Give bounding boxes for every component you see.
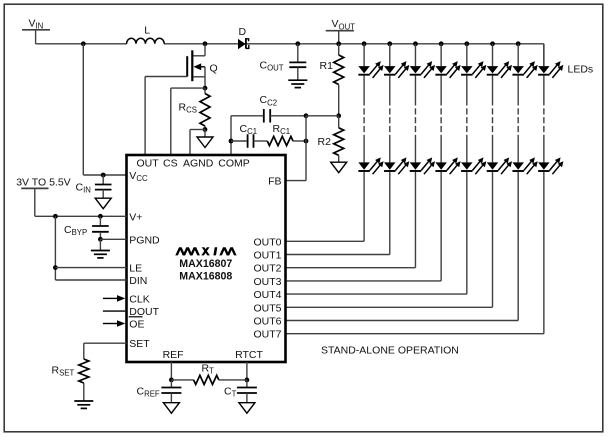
wire REF pin riser: [170, 362, 172, 380]
pin label OUT4: [253, 289, 281, 301]
node LED string 3 bus junction: [439, 41, 444, 46]
node LED string 4 bus junction: [464, 41, 469, 46]
transistor Q (n-channel MOSFET): [187, 44, 217, 88]
pin label OUT2: [253, 263, 281, 275]
svg-text:OUT3: OUT3: [253, 276, 281, 288]
LED string 7 (top LED, dashed continuation, bottom LED): [512, 44, 537, 321]
node RTCT junction: [245, 378, 250, 383]
node source/CS junction: [203, 86, 208, 91]
node COMP lower junction: [229, 139, 234, 144]
wire OUT6 to LED string 7: [286, 320, 519, 322]
resistor RSET: [52, 359, 89, 401]
svg-text:DIN: DIN: [129, 275, 147, 287]
LED string 3 (top LED, dashed continuation, bottom LED): [410, 44, 435, 268]
wire DOUT: [103, 310, 125, 312]
wire OE input arrow: [103, 320, 125, 327]
LED string 6 (top LED, dashed continuation, bottom LED): [487, 44, 512, 308]
wire OUT3 to LED string 4: [286, 280, 442, 282]
node CC1/RC1 junction: [304, 139, 309, 144]
ground PGND (earth): [91, 239, 110, 258]
pin label CLK: [129, 293, 149, 305]
resistor R1: [320, 44, 344, 116]
pin label VCC: [129, 170, 148, 183]
svg-text:STAND-ALONE OPERATION: STAND-ALONE OPERATION: [321, 345, 459, 357]
svg-text:R1: R1: [320, 60, 334, 72]
node COUT junction: [295, 41, 300, 46]
wire OUT1 to LED string 2: [286, 254, 390, 256]
svg-text:OUT1: OUT1: [253, 250, 281, 262]
ground RSET (earth): [74, 401, 93, 408]
pin label AGND: [183, 158, 214, 170]
wire compensation to FB divider: [306, 115, 339, 117]
capacitor CREF: [137, 380, 182, 403]
capacitor COUT: [260, 44, 307, 80]
svg-text:SET: SET: [129, 338, 150, 350]
svg-text:OUT2: OUT2: [253, 263, 281, 275]
svg-text:OUT6: OUT6: [253, 316, 281, 328]
op-amp U1 MAX16807/MAX16808 body: [127, 155, 286, 362]
node LED string 0 bus junction: [362, 41, 367, 46]
wire FB pin: [286, 116, 307, 181]
svg-text:L: L: [144, 25, 150, 37]
pin label FB: [268, 176, 281, 188]
wire CS pin to source: [171, 88, 205, 155]
svg-text:OUT5: OUT5: [253, 302, 281, 314]
pin label OUT6: [253, 316, 281, 328]
svg-text:3V TO 5.5V: 3V TO 5.5V: [16, 177, 70, 189]
wire DIN pin: [55, 279, 126, 281]
wire OUT5 to LED string 6: [286, 306, 493, 308]
node V+/LE junction: [53, 214, 58, 219]
node VCC/CIN junction: [101, 173, 106, 178]
svg-text:RTCT: RTCT: [235, 349, 263, 361]
capacitor CC2: [231, 94, 306, 122]
node CBYP/PGND junction: [98, 237, 103, 242]
label MAX16808: [179, 271, 232, 283]
ground CT (signal): [239, 403, 255, 414]
node LED string 6 bus junction: [516, 41, 521, 46]
resistor R2: [318, 116, 344, 162]
wire CLK input arrow: [103, 295, 125, 302]
node VOUT junction: [336, 41, 341, 46]
resistor RT: [171, 362, 247, 384]
svg-text:OUT4: OUT4: [253, 289, 281, 301]
node VIN terminal: [22, 18, 50, 44]
node R1/R2 feedback junction: [336, 113, 341, 118]
svg-text:REF: REF: [163, 349, 184, 361]
node LE junction: [53, 265, 58, 270]
wire VCC rail: [83, 44, 126, 175]
svg-text:OUT7: OUT7: [253, 329, 281, 341]
LED string 5 (top LED, dashed continuation, bottom LED): [461, 44, 486, 294]
resistor RC1: [254, 123, 307, 146]
pin label V+: [129, 211, 142, 223]
wire OUT0 to LED string 1: [286, 240, 365, 242]
pin label PGND: [129, 234, 160, 246]
svg-text:CLK: CLK: [129, 293, 149, 305]
node VOUT terminal: [326, 18, 356, 44]
LED string 1 (top LED, dashed continuation, bottom LED): [358, 44, 383, 242]
node LED string 5 bus junction: [490, 41, 495, 46]
wire LE pin: [55, 267, 126, 269]
ground R2 (signal): [331, 162, 347, 173]
svg-text:COMP: COMP: [218, 158, 250, 170]
capacitor CT: [224, 380, 257, 403]
pin label OUT3: [253, 276, 281, 288]
wire bus corner to LED string 8: [543, 44, 545, 66]
wire PGND pin: [100, 238, 126, 240]
wire top bus VIN to inductor: [36, 43, 127, 45]
node LED string 2 bus junction: [413, 41, 418, 46]
svg-text:OUT: OUT: [137, 158, 160, 170]
wire OUT4 to LED string 5: [286, 293, 467, 295]
svg-text:OUT0: OUT0: [253, 236, 281, 248]
pin label LE: [129, 263, 142, 275]
svg-text:FB: FB: [268, 176, 281, 188]
pin label SET: [129, 338, 150, 350]
svg-text:MAX16807: MAX16807: [179, 258, 232, 270]
inductor L: [127, 25, 165, 44]
pin label CS: [163, 158, 178, 170]
svg-text:CS: CS: [163, 158, 178, 170]
svg-text:PGND: PGND: [129, 234, 160, 246]
pin label DIN: [129, 275, 147, 287]
node VIN/VCC junction: [81, 41, 86, 46]
svg-text:R2: R2: [318, 136, 332, 148]
node 3V TO 5.5V terminal: [16, 177, 70, 217]
svg-text:OE: OE: [129, 319, 144, 331]
svg-text:LE: LE: [129, 263, 142, 275]
svg-text:LEDs: LEDs: [568, 64, 594, 76]
wire SET pin: [84, 343, 127, 359]
svg-text:D: D: [239, 26, 247, 38]
node drain junction: [203, 41, 208, 46]
svg-text:AGND: AGND: [183, 158, 214, 170]
wire COMP riser: [230, 116, 232, 155]
pin label COMP: [218, 158, 250, 170]
capacitor CIN: [76, 175, 112, 198]
svg-text:Q: Q: [210, 62, 218, 74]
wire top bus inductor to LED column 8: [164, 43, 544, 45]
capacitor CC1: [231, 123, 257, 148]
pin label REF: [163, 349, 184, 361]
pin label OUT0: [253, 236, 281, 248]
svg-text:V+: V+: [129, 211, 142, 223]
ground COUT (earth): [288, 80, 307, 87]
label STAND-ALONE OPERATION: [321, 345, 459, 357]
LED string 8 (top LED, dashed continuation, bottom LED): [538, 44, 563, 334]
pin label OUT7: [253, 329, 281, 341]
node LED string 1 bus junction: [387, 41, 392, 46]
label MAX16807: [179, 258, 232, 270]
wire RTCT pin riser: [246, 362, 248, 380]
pin label OUT1: [253, 250, 281, 262]
wire AGND pin to RCS bottom: [190, 130, 205, 156]
logo MAXIM: [175, 247, 236, 255]
ground CIN (signal): [95, 198, 111, 209]
pin label RTCT: [235, 349, 263, 361]
capacitor CBYP: [64, 216, 109, 239]
pin label OUT5: [253, 302, 281, 314]
resistor RCS: [179, 88, 211, 129]
node RCS bottom junction: [203, 127, 208, 132]
node REF junction: [169, 378, 174, 383]
node V+/CBYP junction: [98, 214, 103, 219]
wire OUT pin to gate of Q: [145, 77, 187, 156]
node CC2 output junction: [304, 113, 309, 118]
pin label OE (active low): [129, 317, 145, 331]
pin label OUT: [137, 158, 160, 170]
ground AGND (signal): [197, 130, 213, 148]
LED string 4 (top LED, dashed continuation, bottom LED): [435, 44, 460, 281]
wire OUT2 to LED string 3: [286, 267, 416, 269]
label LEDs: [568, 64, 594, 76]
LED string 2 (top LED, dashed continuation, bottom LED): [384, 44, 409, 255]
wire OUT7 to LED string 8: [286, 333, 544, 335]
svg-text:MAX16808: MAX16808: [179, 271, 232, 283]
wire LE riser: [54, 216, 56, 280]
ground CREF (signal): [163, 403, 179, 414]
pin label DOUT: [129, 306, 159, 318]
diode D (Schottky): [238, 26, 249, 49]
wire V+ rail: [35, 215, 127, 217]
